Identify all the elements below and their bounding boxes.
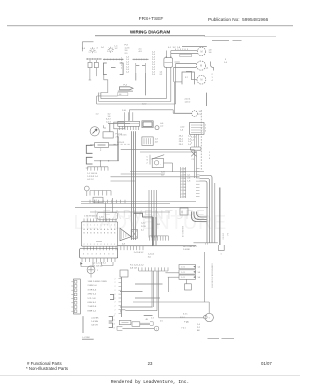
svg-text:1: 1	[90, 225, 91, 227]
svg-text:1 2: 1 2	[95, 200, 97, 202]
svg-text:P (A): P (A)	[184, 321, 189, 324]
svg-text:2 0: 2 0	[160, 321, 163, 323]
svg-text:4-B 1-R: 4-B 1-R	[130, 268, 137, 270]
svg-text:1-4: 1-4	[119, 94, 122, 96]
svg-text:P-1 4-1: P-1 4-1	[116, 134, 123, 136]
svg-text:2-10 1: 2-10 1	[99, 216, 104, 218]
svg-text:1-R 3-R 1-4: 1-R 3-R 1-4	[87, 176, 98, 178]
svg-text:1 3 5 7 9 11 13: 1 3 5 7 9 11 13	[84, 216, 96, 218]
svg-text:3: 3	[205, 131, 206, 133]
svg-text:4: 4	[209, 158, 210, 160]
svg-text:2 WH 1-4: 2 WH 1-4	[88, 285, 98, 287]
svg-text:3 OR 3-6: 3 OR 3-6	[88, 289, 97, 291]
svg-text:1-4 WH: 1-4 WH	[91, 321, 98, 323]
svg-text:2: 2	[209, 155, 210, 157]
svg-text:2: 2	[115, 290, 116, 292]
svg-text:2 1: 2 1	[192, 159, 195, 161]
svg-text:2-10 BK: 2-10 BK	[183, 249, 191, 251]
svg-text:1-4: 1-4	[198, 277, 201, 279]
svg-text:1: 1	[111, 225, 112, 227]
svg-text:2-4 1-B 3-2: 2-4 1-B 3-2	[134, 252, 143, 254]
svg-text:1-6: 1-6	[161, 175, 164, 177]
svg-text:1-4: 1-4	[198, 272, 201, 274]
svg-text:COMPRESSOR 2-10 BK WH: COMPRESSOR 2-10 BK WH	[210, 263, 212, 288]
svg-text:5 YL 1-8: 5 YL 1-8	[88, 298, 97, 300]
svg-text:1: 1	[209, 152, 210, 154]
svg-text:1-16 2: 1-16 2	[185, 102, 192, 104]
svg-text:2-10 4: 2-10 4	[185, 99, 192, 101]
svg-text:2: 2	[87, 244, 88, 246]
svg-text:4 RD 2-2: 4 RD 2-2	[88, 294, 97, 296]
svg-text:2-1 BK: 2-1 BK	[181, 175, 187, 177]
svg-text:2: 2	[115, 313, 116, 315]
svg-text:1-4 2-2: 1-4 2-2	[148, 254, 155, 256]
svg-text:3: 3	[91, 254, 92, 256]
svg-text:1-4 3: 1-4 3	[125, 47, 131, 49]
svg-text:1 4: 1 4	[151, 318, 154, 320]
svg-text:2: 2	[111, 244, 112, 246]
svg-text:4: 4	[114, 324, 115, 326]
svg-text:7 GN 2-6: 7 GN 2-6	[88, 306, 97, 308]
svg-text:2-10 BK: 2-10 BK	[91, 317, 99, 319]
svg-text:2: 2	[115, 286, 116, 288]
svg-text:2: 2	[107, 244, 108, 246]
svg-text:1-4: 1-4	[198, 267, 201, 269]
svg-text:2: 2	[115, 294, 116, 296]
svg-text:2: 2	[114, 244, 115, 246]
svg-text:1-1 1-B 2-4: 1-1 1-B 2-4	[87, 173, 98, 175]
svg-text:1-4: 1-4	[226, 233, 228, 236]
svg-text:1: 1	[114, 225, 115, 227]
svg-text:2: 2	[97, 244, 98, 246]
svg-text:4-1 2-2: 4-1 2-2	[87, 179, 94, 181]
svg-text:1: 1	[205, 125, 206, 127]
svg-text:M: M	[200, 79, 202, 82]
svg-text:1: 1	[104, 225, 105, 227]
svg-text:2: 2	[205, 128, 206, 130]
svg-text:WIRING DIAGRAM: WIRING DIAGRAM	[130, 30, 170, 35]
svg-text:2-1 BK: 2-1 BK	[181, 178, 187, 180]
svg-text:* Non-Illustrated Parts: * Non-Illustrated Parts	[26, 366, 68, 371]
svg-text:1: 1	[107, 225, 108, 227]
svg-text:23: 23	[148, 361, 153, 366]
svg-text:1 4 1: 1 4 1	[181, 277, 185, 279]
svg-text:WH-BK 2-10: WH-BK 2-10	[181, 226, 183, 237]
svg-text:2-1 BK: 2-1 BK	[181, 193, 187, 195]
svg-text:1-4 2: 1-4 2	[141, 223, 145, 225]
svg-text:2-4 1-6 3: 2-4 1-6 3	[117, 142, 124, 144]
svg-text:3: 3	[114, 328, 115, 330]
svg-text:2: 2	[96, 52, 97, 54]
svg-text:2: 2	[94, 244, 95, 246]
svg-text:L-COM: L-COM	[83, 337, 90, 339]
svg-text:1: 1	[94, 225, 95, 227]
svg-text:2-1 BK: 2-1 BK	[181, 184, 187, 186]
svg-text:2: 2	[114, 316, 115, 318]
svg-text:1: 1	[221, 254, 222, 256]
svg-text:2: 2	[115, 306, 116, 308]
svg-text:1: 1	[97, 225, 98, 227]
svg-text:Rendered by LeadVenture, Inc.: Rendered by LeadVenture, Inc.	[111, 379, 189, 385]
svg-text:2-1 BK: 2-1 BK	[181, 196, 187, 198]
svg-text:2: 2	[101, 244, 102, 246]
svg-text:3: 3	[104, 254, 105, 256]
svg-text:2-10: 2-10	[100, 92, 102, 96]
svg-text:3: 3	[108, 254, 109, 256]
svg-text:2-1 BK: 2-1 BK	[181, 181, 187, 183]
svg-text:NO CONN 1-4 2: NO CONN 1-4 2	[183, 246, 197, 248]
svg-text:3: 3	[96, 254, 97, 256]
svg-text:2: 2	[121, 68, 122, 70]
svg-text:2-2 B: 2-2 B	[141, 226, 146, 228]
svg-text:1: 1	[114, 320, 115, 322]
svg-text:1 4 1: 1 4 1	[181, 272, 185, 274]
svg-text:M: M	[200, 51, 202, 54]
svg-text:01/07: 01/07	[261, 361, 272, 366]
svg-text:2-1 BK: 2-1 BK	[181, 172, 187, 174]
svg-text:3-6 OR: 3-6 OR	[91, 325, 98, 327]
svg-text:2-1 BK: 2-1 BK	[181, 190, 187, 192]
svg-text:1: 1	[87, 225, 88, 227]
svg-text:2-4 1: 2-4 1	[161, 172, 165, 174]
svg-text:3: 3	[87, 254, 88, 256]
svg-text:2: 2	[115, 282, 116, 284]
svg-text:5: 5	[147, 157, 148, 159]
svg-text:8 BR 1-2: 8 BR 1-2	[88, 310, 97, 312]
svg-text:3: 3	[100, 254, 101, 256]
svg-text:1: 1	[101, 225, 102, 227]
svg-text:FRS+TSEF: FRS+TSEF	[139, 16, 164, 22]
svg-text:1: 1	[84, 225, 85, 227]
svg-text:Publication No: 5995481966: Publication No: 5995481966	[208, 17, 269, 22]
svg-text:xx: xx	[181, 212, 183, 214]
svg-text:1: 1	[89, 52, 90, 54]
svg-text:2: 2	[115, 278, 116, 280]
svg-text:1 4 1: 1 4 1	[181, 267, 185, 269]
svg-text:2-1 BK: 2-1 BK	[181, 187, 187, 189]
svg-text:4: 4	[156, 329, 157, 331]
svg-text:3: 3	[112, 254, 113, 256]
svg-text:2-10 1-4: 2-10 1-4	[221, 233, 223, 240]
svg-text:2-10: 2-10	[122, 110, 126, 112]
svg-text:NO CONN: NO CONN	[97, 281, 107, 283]
svg-text:2: 2	[147, 163, 148, 165]
svg-text:1-4: 1-4	[160, 72, 163, 74]
svg-text:2-2: 2-2	[160, 74, 163, 76]
svg-text:2: 2	[90, 244, 91, 246]
svg-text:2: 2	[84, 244, 85, 246]
svg-text:2-1 BK: 2-1 BK	[181, 169, 187, 171]
svg-text:1-4: 1-4	[206, 68, 209, 70]
svg-text:4-1 3-2 1-8: 4-1 3-2 1-8	[168, 47, 181, 49]
svg-text:2: 2	[115, 310, 116, 312]
svg-text:6 BU 4-1: 6 BU 4-1	[88, 302, 97, 304]
svg-text:1: 1	[107, 51, 108, 53]
svg-text:2: 2	[115, 302, 116, 304]
svg-text:1-2 4-1 2-2 3-1: 1-2 4-1 2-2 3-1	[92, 263, 106, 265]
svg-text:4-1: 4-1	[141, 230, 144, 232]
svg-text:2: 2	[115, 298, 116, 300]
svg-text:M: M	[200, 65, 202, 68]
svg-text:P-1 2-4 1-4 2-2: P-1 2-4 1-4 2-2	[130, 265, 144, 267]
svg-text:3: 3	[83, 254, 84, 256]
svg-text:2: 2	[104, 244, 105, 246]
svg-text:1-6 2: 1-6 2	[142, 104, 146, 106]
